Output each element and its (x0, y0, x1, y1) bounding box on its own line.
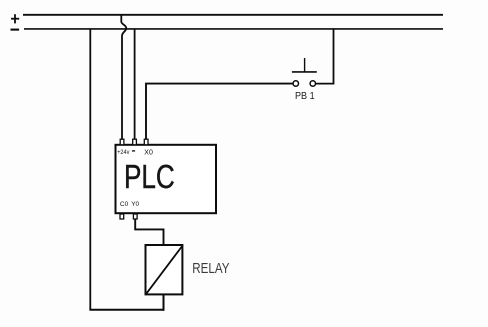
svg-text:+24v: +24v (117, 149, 130, 156)
svg-text:Y0: Y0 (131, 201, 139, 208)
svg-text:PLC: PLC (124, 158, 175, 195)
svg-text:X0: X0 (144, 149, 153, 156)
svg-text:C0: C0 (120, 201, 129, 208)
svg-text:PB 1: PB 1 (295, 90, 315, 102)
svg-text:RELAY: RELAY (192, 261, 229, 277)
